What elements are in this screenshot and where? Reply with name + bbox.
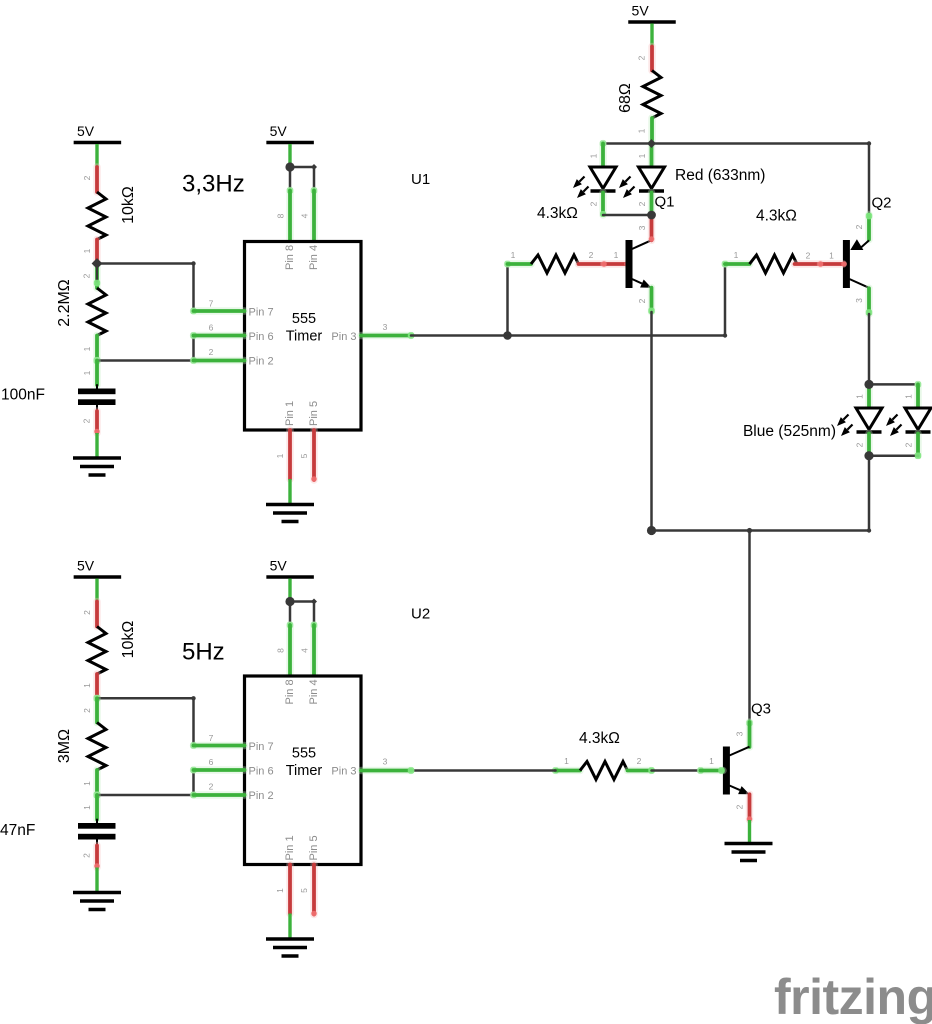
wire 5V P5 down [288, 579, 291, 602]
svg-text:2: 2 [589, 250, 594, 260]
svg-text:Timer: Timer [286, 763, 323, 779]
LED4 emission arrows [886, 415, 902, 437]
svg-text:1: 1 [709, 756, 714, 766]
svg-text:555: 555 [292, 746, 316, 762]
IC U2 pin 4 lead [300, 622, 318, 676]
svg-text:8: 8 [276, 648, 286, 653]
IC U1 pin label Pin 1 [284, 401, 296, 426]
wire 5V P4 to R7 [95, 579, 98, 602]
resistor R4 label 4.3k&#937; [756, 208, 797, 225]
wire node D up to R3 [506, 264, 509, 336]
svg-text:2: 2 [82, 610, 92, 615]
svg-text:1: 1 [637, 128, 647, 133]
svg-text:5: 5 [299, 888, 309, 893]
LED3 blue anode lead [855, 384, 870, 408]
svg-text:6: 6 [209, 323, 214, 333]
svg-text:1: 1 [829, 251, 834, 261]
wire U2 pin4 drop down [313, 602, 316, 626]
label 3,3Hz [182, 171, 245, 198]
IC U1 pin label Pin 6 [249, 331, 274, 343]
svg-text:1: 1 [275, 453, 285, 458]
svg-text:1: 1 [511, 250, 516, 260]
IC U2 pin 7 lead [190, 733, 244, 749]
LED3 emission arrows [837, 415, 853, 437]
svg-text:10kΩ: 10kΩ [120, 621, 137, 659]
svg-text:Red (633nm): Red (633nm) [675, 167, 765, 184]
wire Q1 emitter down to node H [650, 312, 653, 531]
wire U2 pin3 to R5 [411, 769, 556, 772]
label U1 [411, 171, 430, 188]
svg-text:Pin 2: Pin 2 [249, 356, 274, 368]
svg-text:3MΩ: 3MΩ [56, 729, 73, 763]
ground GND3 [725, 844, 773, 861]
svg-text:3: 3 [383, 757, 388, 767]
node E junction marker (diamond 68R/LED rail) [647, 139, 656, 148]
wire node M down to pin8 stub [289, 602, 292, 626]
svg-text:2: 2 [637, 756, 642, 766]
svg-text:Q3: Q3 [751, 701, 771, 718]
svg-text:10kΩ: 10kΩ [120, 186, 137, 224]
node L junction R8/C2/Pin2-6 [94, 792, 101, 799]
svg-text:Pin 8: Pin 8 [284, 679, 296, 704]
LED1 red (633nm) symbol [590, 167, 616, 191]
svg-text:68Ω: 68Ω [617, 83, 634, 113]
svg-text:2: 2 [806, 251, 811, 261]
svg-text:1: 1 [904, 394, 914, 399]
transistor Q3 NPN symbol [723, 747, 750, 795]
node C junction marker (5V to pins 8/4) [285, 162, 294, 171]
IC U2 pin 2 lead [190, 782, 244, 799]
svg-text:2: 2 [637, 201, 647, 206]
resistor R7 label 10k&#937; [120, 621, 137, 659]
svg-text:Pin 1: Pin 1 [284, 835, 296, 860]
svg-text:2: 2 [82, 175, 92, 180]
svg-text:5V: 5V [77, 558, 95, 574]
wire node J down to Q3 [748, 531, 751, 723]
svg-text:2: 2 [855, 442, 865, 447]
svg-text:1: 1 [82, 248, 92, 253]
svg-text:2: 2 [82, 853, 92, 858]
wire node H down [867, 456, 871, 533]
resistor R8 pin1 lead [82, 770, 97, 795]
svg-text:3: 3 [854, 298, 864, 303]
wire emitter bus [652, 529, 870, 532]
svg-text:Pin 3: Pin 3 [331, 766, 356, 778]
svg-text:4.3kΩ: 4.3kΩ [579, 730, 620, 747]
power 5V supply symbol P5 (U2 pins 8/4) [266, 558, 314, 578]
wire Q2 collector down to blue LEDs [868, 314, 871, 384]
resistor R1 10k&#937; pin2 lead [82, 167, 97, 192]
wire node M to pin4 drop (diamond end) [290, 599, 317, 605]
IC U1 name 555 Timer [286, 311, 323, 345]
transistor Q2 base lead [818, 251, 847, 267]
IC U1 pin 4 lead [300, 187, 318, 241]
resistor R3 4.3k&#937; pin1 lead [504, 250, 531, 267]
node D junction to Q1 base branch [503, 331, 512, 340]
transistor Q1 NPN symbol [626, 240, 652, 288]
transistor Q2 label Q2 [872, 195, 892, 212]
wire U1 pin1 to ground GND2 [288, 479, 291, 505]
op-amp/IC U2 555 timer body [245, 676, 362, 865]
ground GND1 [73, 458, 121, 475]
svg-text:5V: 5V [270, 123, 288, 139]
svg-text:1: 1 [82, 683, 92, 688]
IC U2 pin label Pin 8 [284, 679, 296, 704]
svg-text:2: 2 [735, 804, 745, 809]
resistor R5 4.3k&#937; pin1 lead [552, 756, 580, 774]
transistor Q1 emitter lead [637, 288, 655, 314]
wire bend up to R4 [723, 264, 727, 338]
ground GND4 [73, 893, 121, 910]
svg-text:2: 2 [637, 298, 647, 303]
resistor R1 label 10k&#937; [120, 186, 137, 224]
IC U1 pin label Pin 4 [308, 245, 320, 270]
node B junction R2/C1/Pin2-6 [94, 357, 101, 364]
svg-text:Pin 7: Pin 7 [249, 307, 274, 319]
transistor Q3 emitter lead [735, 794, 753, 822]
svg-text:1: 1 [275, 888, 285, 893]
svg-text:7: 7 [209, 733, 214, 743]
wire C1 to ground GND1 [95, 433, 98, 458]
resistor R2 2.2M&#937; pin2 lead [82, 264, 101, 289]
IC U1 pin 8 lead [276, 187, 294, 241]
resistor R7 10k&#937; pin2 lead [82, 602, 97, 627]
svg-text:Pin 6: Pin 6 [249, 766, 274, 778]
svg-text:2: 2 [82, 273, 92, 278]
capacitor C2 47nF plates [78, 823, 116, 840]
svg-text:Pin 8: Pin 8 [284, 245, 296, 270]
transistor Q2 PNP symbol [843, 239, 869, 288]
wire C2 to ground GND4 [95, 868, 98, 893]
svg-text:Blue (525nm): Blue (525nm) [743, 423, 836, 440]
transistor Q1 collector lead [637, 215, 654, 242]
IC U2 pin 1 lead [275, 865, 290, 914]
IC U1 pin label Pin 8 [284, 245, 296, 270]
svg-text:47nF: 47nF [0, 822, 35, 839]
label 5Hz [182, 639, 225, 666]
svg-text:8: 8 [276, 213, 286, 218]
wire 5V P1 to R1 [95, 144, 98, 167]
ground GND2 [266, 505, 314, 522]
wire node L to U2 Pin2 [97, 793, 196, 797]
svg-text:Timer: Timer [286, 329, 323, 345]
svg-text:Pin 2: Pin 2 [249, 790, 274, 802]
wire node C down to pin8 stub [289, 167, 292, 191]
IC U1 pin 1 lead [275, 430, 290, 479]
wire node B to Pin2 [97, 359, 194, 362]
transistor Q3 label Q3 [751, 701, 771, 718]
wire R5 to Q3 base [652, 767, 704, 773]
svg-text:7: 7 [209, 299, 214, 309]
capacitor C1 100nF pin1 lead [82, 361, 97, 390]
IC U1 pin label Pin 7 [249, 307, 274, 319]
LED4 blue (525nm) symbol [905, 408, 931, 432]
IC U2 pin 3 lead [361, 757, 414, 774]
svg-text:Q1: Q1 [655, 194, 675, 211]
IC U2 pin label Pin 3 [331, 766, 356, 778]
svg-text:3: 3 [735, 731, 745, 736]
capacitor C2 47nF pin1 lead [82, 795, 97, 824]
svg-text:4: 4 [300, 648, 310, 653]
IC U2 pin label Pin 1 [284, 835, 296, 860]
LED3 cathode lead [855, 434, 870, 456]
resistor R8 label 3M&#937; [56, 729, 73, 763]
svg-text:5V: 5V [77, 123, 95, 139]
svg-text:1: 1 [637, 153, 647, 158]
svg-text:Pin 4: Pin 4 [308, 245, 320, 270]
svg-text:Pin 4: Pin 4 [308, 679, 320, 704]
LED2 emission arrows [619, 177, 635, 199]
wire pin4 drop down [313, 167, 316, 191]
svg-text:Pin 5: Pin 5 [308, 835, 320, 860]
svg-text:Pin 1: Pin 1 [284, 401, 296, 426]
resistor R6 68&#937; body [643, 71, 661, 119]
IC U1 pin 6 lead [190, 323, 244, 339]
svg-text:2.2MΩ: 2.2MΩ [56, 279, 73, 327]
svg-text:5: 5 [299, 453, 309, 458]
IC U2 pin 8 lead [276, 622, 294, 676]
wire node A to bend [97, 261, 196, 265]
wire U2 pin1 to ground GND5 [288, 914, 291, 940]
svg-text:U2: U2 [411, 606, 430, 623]
IC U2 name 555 Timer [286, 746, 323, 780]
node M junction marker (5V to U2 pins 8/4) [285, 597, 294, 606]
svg-text:5V: 5V [270, 558, 288, 574]
power 5V supply symbol P1 (U1 RC branch) [74, 123, 122, 143]
resistor R2 label 2.2M&#937; [56, 279, 73, 327]
IC U2 pin label Pin 7 [249, 741, 274, 753]
svg-text:4: 4 [300, 213, 310, 218]
resistor R8 3M&#937; pin2 lead [82, 698, 97, 722]
power 5V supply symbol P2 (U1 pins 8/4) [266, 123, 314, 143]
svg-text:Pin 3: Pin 3 [331, 331, 356, 343]
node J tee to Q3 collector [747, 528, 752, 533]
node I junction marker (emitter bus corner) [647, 526, 656, 535]
wire node C to pin4 drop (diamond end) [290, 164, 317, 170]
svg-text:1: 1 [564, 756, 569, 766]
LED1 red anode lead [589, 144, 604, 168]
svg-text:100nF: 100nF [1, 387, 45, 404]
svg-text:1: 1 [734, 250, 739, 260]
svg-text:2: 2 [82, 418, 92, 423]
IC U1 pin 2 lead [190, 347, 244, 364]
node A junction marker (diamond R1/R2/wire) [92, 258, 103, 269]
resistor R7 pin1 lead [82, 674, 97, 698]
resistor R2 pin1 lead [82, 336, 97, 361]
svg-text:2: 2 [82, 708, 92, 713]
IC U1 pin 3 lead [361, 322, 414, 339]
svg-text:Pin 6: Pin 6 [249, 331, 274, 343]
svg-text:6: 6 [209, 757, 214, 767]
LED2 red anode lead [637, 144, 652, 168]
capacitor C2 pin2 lead [82, 840, 100, 869]
transistor Q3 collector lead [735, 720, 753, 747]
wire U1 pin3 output bus [411, 334, 725, 337]
svg-text:Pin 7: Pin 7 [249, 741, 274, 753]
svg-text:5V: 5V [632, 3, 650, 19]
node K junction R7/R8/Pin7 [94, 695, 101, 702]
wire node F to LED1 cathode [603, 214, 652, 217]
LED2 cathode lead [637, 193, 652, 216]
IC U1 pin label Pin 3 [331, 331, 356, 343]
resistor R5 4.3k&#937; body [580, 762, 628, 780]
wire node H to LED4 cathode [869, 453, 921, 459]
transistor Q2 collector lead [854, 288, 872, 315]
resistor R6 label 68&#937; [617, 83, 634, 113]
wire 5V P3 to R6 [650, 24, 653, 47]
resistor R6 68&#937; pin2 lead [637, 47, 653, 71]
svg-text:U1: U1 [411, 171, 430, 188]
resistor R6 pin1 lead [637, 118, 653, 144]
svg-text:3: 3 [383, 322, 388, 332]
IC U1 pin 5 lead [299, 430, 317, 482]
resistor R4 pin2 lead [795, 251, 821, 265]
wire node E to LED1 anode [600, 140, 652, 146]
svg-text:1: 1 [82, 346, 92, 351]
svg-text:4.3kΩ: 4.3kΩ [756, 208, 797, 225]
label U2 [411, 606, 430, 623]
LED4 blue anode lead [904, 384, 919, 408]
transistor Q2 emitter lead [854, 213, 872, 240]
IC U2 pin label Pin 4 [308, 679, 320, 704]
label Red (633nm) [675, 167, 765, 184]
resistor R5 pin2 lead [628, 756, 655, 774]
transistor Q1 base lead [601, 250, 630, 267]
capacitor C2 label 47nF [0, 822, 35, 839]
resistor R1 pin1 lead [82, 240, 97, 264]
wire 5V P2 down [288, 144, 291, 167]
label Blue (525nm) [743, 423, 836, 440]
wire node G to LED4 anode [869, 381, 921, 387]
resistor R3 pin2 lead [579, 250, 605, 264]
node H junction marker (blue LED cathodes) [864, 451, 873, 460]
wire Pin6 to Pin2 tie [192, 336, 195, 361]
LED1 emission arrows [573, 177, 589, 199]
resistor R4 4.3k&#937; pin1 lead [722, 250, 750, 267]
svg-text:1: 1 [589, 153, 599, 158]
resistor R4 4.3k&#937; body [750, 255, 798, 273]
power 5V supply symbol P4 (U2 RC branch) [74, 558, 122, 578]
svg-text:1: 1 [614, 250, 619, 260]
resistor R2 2.2M&#937; body [88, 288, 106, 336]
svg-text:1: 1 [82, 781, 92, 786]
transistor Q1 label Q1 [655, 194, 675, 211]
resistor R5 label 4.3k&#937; [579, 730, 620, 747]
svg-text:1: 1 [855, 394, 865, 399]
svg-text:2: 2 [904, 442, 914, 447]
IC U1 pin 7 lead [190, 299, 244, 315]
svg-text:2: 2 [209, 347, 214, 357]
IC U2 pin label Pin 6 [249, 766, 274, 778]
wire U2 Pin6 to Pin2 tie [192, 770, 195, 795]
LED2 red (633nm) symbol [639, 167, 665, 191]
IC U2 pin label Pin 2 [249, 790, 274, 802]
LED3 blue (525nm) symbol [856, 408, 882, 432]
svg-text:1: 1 [82, 805, 92, 810]
resistor R3 4.3k&#937; body [531, 255, 579, 273]
svg-text:Pin 5: Pin 5 [308, 401, 320, 426]
svg-text:Q2: Q2 [872, 195, 892, 212]
power 5V supply symbol P3 (68R) [628, 3, 676, 23]
capacitor C1 100nF plates [78, 389, 116, 406]
svg-text:1: 1 [82, 370, 92, 375]
IC U1 pin label Pin 5 [308, 401, 320, 426]
node G junction marker (blue LED anodes) [864, 380, 873, 389]
svg-text:3,3Hz: 3,3Hz [182, 171, 245, 198]
capacitor C1 pin2 lead [82, 405, 100, 434]
node F junction marker (LED cathodes/Q1 collector) [647, 211, 656, 220]
IC U2 pin 5 lead [299, 865, 317, 917]
op-amp/IC U1 555 timer body [245, 242, 362, 431]
svg-text:555: 555 [292, 311, 316, 327]
wire bend down to Pin7 [192, 264, 195, 312]
svg-text:4.3kΩ: 4.3kΩ [537, 205, 578, 222]
resistor R1 10k&#937; body [88, 192, 106, 240]
svg-text:2: 2 [209, 782, 214, 792]
IC U2 pin 6 lead [190, 757, 244, 773]
LED1 cathode lead [589, 193, 607, 218]
svg-text:2: 2 [854, 224, 864, 229]
resistor R3 label 4.3k&#937; [537, 205, 578, 222]
IC U1 pin label Pin 2 [249, 356, 274, 368]
svg-text:5Hz: 5Hz [182, 639, 225, 666]
resistor R8 3M&#937; body [88, 723, 106, 771]
capacitor C1 label 100nF [1, 387, 45, 404]
wire node K to bend [97, 696, 196, 700]
svg-text:2: 2 [589, 201, 599, 206]
transistor Q3 base lead [701, 756, 725, 774]
svg-text:3: 3 [637, 225, 647, 230]
svg-text:2: 2 [637, 55, 647, 60]
wire bend down to U2 Pin7 [192, 698, 195, 745]
wire node E to Q2 emitter rail [652, 141, 872, 145]
wire Q3 emitter to ground GND3 [748, 820, 751, 844]
fritzing watermark logo [774, 969, 932, 1024]
svg-text:fritzing: fritzing [774, 969, 932, 1024]
resistor R7 10k&#937; body [88, 627, 106, 675]
IC U2 pin label Pin 5 [308, 835, 320, 860]
wire rail down to Q2 emitter [868, 144, 871, 215]
ground GND5 [266, 939, 314, 956]
LED4 cathode lead [904, 434, 919, 456]
